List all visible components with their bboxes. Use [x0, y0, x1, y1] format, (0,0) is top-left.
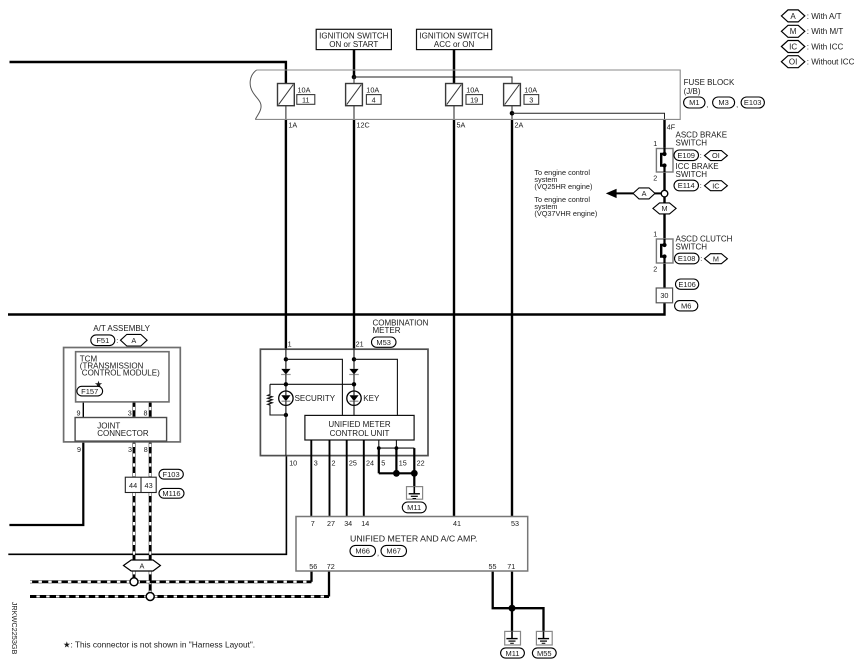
svg-text:3: 3: [128, 445, 132, 454]
node dot pin1 branch: [284, 357, 288, 361]
wire branch to ground M55: [512, 608, 544, 631]
svg-text:55: 55: [489, 562, 497, 571]
wire control unit out 24: [363, 440, 365, 517]
boxed number 4: [366, 95, 381, 105]
connector oval E108: [675, 253, 703, 264]
svg-text:E108: E108: [678, 254, 696, 263]
svg-text:M: M: [713, 254, 719, 263]
label COMBINATION METER: [373, 318, 429, 335]
ignition switch box ACC or ON: [417, 29, 492, 49]
svg-text:8: 8: [144, 445, 148, 454]
svg-text:15: 15: [399, 458, 407, 467]
svg-text:CONNECTOR: CONNECTOR: [97, 429, 149, 438]
legend hexagon OI: [781, 56, 854, 68]
svg-text:10A: 10A: [366, 86, 379, 95]
joint connector box: [75, 418, 167, 442]
label To engine control system (VQ37VHR engine): [534, 195, 597, 218]
wire 12C fuse 4 to combination meter pin 21: [353, 119, 355, 349]
svg-text:A: A: [139, 561, 144, 570]
svg-text:M67: M67: [386, 547, 401, 556]
combination meter box: [260, 349, 428, 455]
connector oval E106: [676, 279, 699, 289]
svg-text:SWITCH: SWITCH: [676, 170, 708, 179]
connector oval M116: [159, 488, 184, 498]
svg-text:1: 1: [653, 230, 657, 239]
svg-text:10A: 10A: [466, 86, 479, 95]
svg-text::: :: [700, 151, 702, 160]
boxed number 11: [297, 95, 315, 105]
svg-text:3: 3: [314, 458, 318, 467]
wire meter pin 10 down and left to page edge: [8, 456, 286, 555]
ground symbol M55 bottom: [536, 631, 552, 645]
svg-text::: :: [700, 181, 702, 190]
wire 2A fuse 3 to amp pin 53: [511, 119, 513, 516]
ASCD brake switch box: [656, 148, 673, 172]
svg-text:M: M: [790, 27, 797, 36]
svg-text:,: ,: [706, 100, 708, 109]
fuse 10A 4: [346, 84, 363, 106]
wire ignition ON/START down to fuse block: [353, 50, 356, 76]
svg-text:A: A: [642, 189, 647, 198]
legend hexagon M: [781, 25, 843, 37]
svg-text:24: 24: [366, 458, 374, 467]
svg-text:2: 2: [653, 265, 657, 274]
svg-text:: Without ICC: : Without ICC: [807, 58, 855, 67]
option hexagon M on wire: [653, 203, 676, 214]
wire ground jumper rail: [379, 447, 415, 449]
svg-text:SWITCH: SWITCH: [676, 138, 708, 147]
svg-text:SECURITY: SECURITY: [295, 394, 336, 403]
wire 1A fuse 11 to combination meter pin 1: [285, 119, 287, 349]
svg-text:3: 3: [128, 408, 132, 417]
legend hexagon IC: [781, 41, 843, 53]
connector oval M67: [381, 545, 407, 556]
svg-text:5: 5: [381, 458, 385, 467]
ignition switch box ON or START: [316, 29, 391, 49]
svg-text:F157: F157: [81, 387, 98, 396]
fuse 10A 3: [504, 84, 521, 106]
node dot resistor bottom: [284, 413, 288, 417]
connector oval M66: [350, 545, 379, 557]
svg-text:: With ICC: : With ICC: [807, 42, 844, 51]
svg-text:44: 44: [129, 481, 137, 490]
svg-text:1: 1: [288, 339, 292, 348]
svg-text:A: A: [131, 336, 136, 345]
svg-text:METER: METER: [373, 326, 401, 335]
svg-text::: :: [700, 254, 702, 263]
wire ground bus horizontal: [379, 472, 415, 474]
svg-text:IC: IC: [712, 181, 719, 190]
wire brake switch pin 2 down: [663, 172, 665, 190]
label FUSE BLOCK (J/B): [684, 78, 735, 96]
svg-text:43: 43: [145, 481, 153, 490]
node dot jumper 5: [377, 446, 381, 450]
svg-text:5A: 5A: [457, 121, 466, 130]
svg-text:21: 21: [356, 339, 364, 348]
svg-text:M1: M1: [689, 98, 699, 107]
wire M hexagon to clutch switch pin 1: [663, 214, 665, 240]
junction open circle comm line 1: [130, 578, 138, 586]
svg-text:(J/B): (J/B): [684, 87, 701, 96]
wire pin 15 down: [395, 448, 397, 473]
wire pin1 internal: [285, 349, 287, 369]
svg-text:SWITCH: SWITCH: [676, 243, 708, 252]
svg-text:M11: M11: [505, 649, 519, 658]
svg-text:KEY: KEY: [363, 394, 380, 403]
svg-text:OI: OI: [712, 151, 720, 160]
svg-text:72: 72: [327, 562, 335, 571]
svg-text:CONTROL UNIT: CONTROL UNIT: [330, 429, 390, 438]
option hexagon IC: [705, 181, 728, 191]
svg-text:M11: M11: [407, 503, 421, 512]
inline connector 44 43 box: [125, 477, 156, 492]
svg-text:14: 14: [361, 519, 369, 528]
svg-text:53: 53: [511, 519, 519, 528]
svg-text:M116: M116: [162, 489, 180, 498]
svg-text:: With M/T: : With M/T: [807, 27, 844, 36]
svg-text:71: 71: [507, 562, 515, 571]
wire amp pin 71 to ground M11: [511, 571, 513, 631]
wire thin from dot to fuse 4: [353, 77, 355, 84]
node dot ground bus 22: [411, 470, 418, 477]
wire comm line 1 shielded horizontal: [30, 580, 312, 583]
svg-text:2A: 2A: [515, 121, 524, 130]
wire clutch switch pin 2 to connector 30: [663, 263, 665, 288]
wire pin21 internal: [353, 349, 355, 369]
svg-text:1: 1: [653, 139, 657, 148]
node dot security rail: [284, 382, 288, 386]
wire jumper from ON feed to fuse 3: [354, 77, 512, 84]
connector oval E114: [674, 180, 702, 191]
junction open circle comm line 2: [146, 593, 154, 601]
svg-text:41: 41: [453, 519, 461, 528]
svg-text:CONTROL MODULE): CONTROL MODULE): [82, 369, 160, 378]
svg-text:22: 22: [417, 458, 425, 467]
wire 5A fuse 19 to amp pin 41: [453, 119, 455, 516]
svg-text:M: M: [661, 204, 667, 213]
svg-text:F51: F51: [96, 336, 109, 345]
svg-text:M3: M3: [718, 98, 728, 107]
svg-text:★: This connector is not shown: ★: This connector is not shown in "Harne…: [63, 639, 255, 649]
TCM box: [76, 352, 169, 402]
svg-text:F103: F103: [163, 470, 180, 479]
boxed number 3: [524, 95, 539, 105]
A/T assembly outer box: [64, 348, 181, 442]
connector oval M1: [684, 97, 705, 108]
svg-text:8: 8: [144, 408, 148, 417]
svg-text:9: 9: [77, 408, 81, 417]
svg-text:9: 9: [77, 445, 81, 454]
option hexagon A transmission: [121, 334, 148, 346]
wire TCM pin 8 shielded to joint connector: [149, 402, 152, 418]
wire control unit out 25: [346, 440, 348, 517]
node dot ground bus 15: [393, 470, 400, 477]
connector oval M55 bottom: [532, 648, 556, 658]
svg-text:M6: M6: [681, 302, 691, 311]
svg-text:IC: IC: [789, 42, 797, 51]
wire junction to M split: [663, 197, 665, 204]
wire control unit out 3: [310, 440, 312, 517]
indicator lamp SECURITY: [279, 391, 293, 405]
fuse block J/B outline: [255, 70, 680, 119]
node dot fuse 3 output branch: [510, 111, 515, 116]
connector oval F157: [77, 386, 103, 396]
wire amp pin 72 down to comm line 2: [328, 571, 330, 597]
wire connector 30 down and long run to left edge: [8, 303, 665, 315]
wire control unit out 2: [329, 440, 331, 517]
junction open circle brake switch output: [661, 190, 668, 197]
indicator lamp KEY: [347, 391, 361, 405]
option hexagon A with arrow: [633, 188, 655, 199]
connector oval M53: [372, 337, 397, 347]
wire fuse 19 output thin: [453, 106, 455, 120]
option hexagon OI: [705, 151, 728, 161]
svg-text:34: 34: [344, 519, 352, 528]
wire control unit out 15 stub: [395, 440, 397, 448]
connector oval M11 bottom: [501, 648, 525, 658]
wire battery feed top-left to fuse 11: [10, 62, 286, 84]
svg-text:25: 25: [349, 458, 357, 467]
svg-text:FUSE BLOCK: FUSE BLOCK: [684, 78, 735, 87]
option hexagon M clutch: [705, 254, 728, 264]
svg-text:10: 10: [289, 458, 297, 467]
wire control unit out 5 stub: [378, 440, 380, 448]
wire node rail linking both branches: [270, 383, 354, 385]
wire 4F to ASCD brake switch pin 1: [663, 119, 665, 148]
svg-text:10A: 10A: [298, 86, 311, 95]
wire joint connector pin 8 shielded down to AV comm line: [149, 442, 152, 597]
fuse 10A 19: [446, 84, 463, 106]
connector oval M11 meter ground: [402, 502, 426, 513]
svg-text:27: 27: [327, 519, 335, 528]
diode D2 key feed: [349, 369, 359, 375]
svg-text:E106: E106: [678, 280, 696, 289]
svg-text:ACC or ON: ACC or ON: [434, 40, 475, 49]
svg-text:(VQ37VHR engine): (VQ37VHR engine): [534, 209, 597, 218]
svg-text:: With A/T: : With A/T: [807, 12, 842, 21]
pass-through connector 30: [656, 288, 672, 303]
label ICC BRAKE SWITCH: [676, 162, 719, 179]
node dot pin21 branch: [352, 357, 356, 361]
svg-text:7: 7: [311, 519, 315, 528]
connector oval E109: [674, 150, 702, 161]
fuse 10A 11: [278, 84, 295, 106]
wire A hexagon to open circle: [655, 192, 662, 194]
wire fuse 11 output thin: [285, 106, 287, 120]
diode D1 security feed: [281, 369, 291, 375]
connector oval F51: [91, 335, 118, 346]
wire branch pin1 to control unit: [286, 359, 343, 415]
svg-text:JRKWC2253GB: JRKWC2253GB: [10, 602, 19, 655]
node dot jumper 15: [395, 446, 399, 450]
svg-text:10A: 10A: [524, 86, 537, 95]
connector oval E103: [741, 97, 764, 108]
connector oval F103: [159, 469, 183, 479]
wire arrow branch to engine control: [615, 192, 634, 194]
wire comm line 2 shielded horizontal: [30, 595, 329, 598]
legend hexagon A: [781, 10, 841, 22]
resistor parallel with security lamp: [268, 384, 286, 415]
svg-text:11: 11: [302, 95, 310, 104]
wire diode1 to node: [285, 374, 287, 391]
svg-text:4F: 4F: [667, 123, 676, 132]
svg-text:,: ,: [736, 100, 738, 109]
wire key lamp to control unit: [353, 405, 355, 415]
wire pin 5 down: [378, 448, 380, 473]
svg-text:19: 19: [470, 95, 478, 104]
wire joint connector pin 3 shielded down to AV comm line: [133, 442, 136, 582]
arrowhead to engine control system: [606, 189, 617, 198]
svg-text:30: 30: [660, 291, 668, 300]
ASCD clutch switch box: [656, 239, 673, 263]
svg-text:4: 4: [372, 95, 376, 104]
wire amp pin 55 to ground junction: [493, 571, 512, 608]
wire ignition ACC/ON down to fuse 19: [453, 50, 456, 84]
label ASCD CLUTCH SWITCH: [676, 235, 733, 252]
svg-text:E114: E114: [678, 181, 695, 190]
connector oval M6: [675, 301, 698, 311]
wire joint connector pin 9 down and left to page edge: [9, 442, 83, 525]
wire TCM pin 3 shielded to joint connector: [133, 402, 136, 418]
svg-text:,: ,: [377, 549, 379, 558]
ground symbol M11 bottom: [505, 631, 521, 645]
svg-text:A/T ASSEMBLY: A/T ASSEMBLY: [93, 324, 150, 333]
unified meter and A/C amp box: [296, 517, 528, 572]
node dot key rail: [352, 382, 356, 386]
label To engine control system (VQ25HR engine): [534, 168, 592, 191]
wire security lamp to pin 10: [285, 405, 287, 455]
ground symbol meter M11: [407, 487, 423, 500]
svg-text:2: 2: [332, 458, 336, 467]
wire TCM pin 9 to joint connector: [82, 402, 84, 418]
node dot ignition ON feed: [352, 75, 357, 80]
svg-text:UNIFIED METER AND A/C AMP.: UNIFIED METER AND A/C AMP.: [350, 535, 478, 544]
wire pin 22 down: [413, 448, 415, 487]
svg-text:E103: E103: [744, 98, 762, 107]
wire branch pin21 to control unit: [354, 359, 397, 415]
svg-text:M66: M66: [355, 547, 370, 556]
connector oval M3: [713, 97, 735, 108]
svg-text:E109: E109: [677, 151, 695, 160]
svg-text:56: 56: [309, 562, 317, 571]
svg-text:M55: M55: [537, 649, 552, 658]
svg-text:12C: 12C: [357, 121, 370, 130]
node dot ground junction: [509, 605, 516, 612]
svg-text:ON or START: ON or START: [329, 40, 378, 49]
svg-text:OI: OI: [789, 58, 797, 67]
boxed number 19: [466, 95, 483, 105]
svg-text::: :: [116, 336, 118, 345]
svg-text:2: 2: [653, 174, 657, 183]
svg-text:M53: M53: [376, 338, 391, 347]
wire amp pin 56 down to comm line 1: [310, 571, 312, 582]
wire fuse 3 output thin: [511, 106, 513, 120]
svg-text:(VQ25HR engine): (VQ25HR engine): [534, 182, 592, 191]
label ASCD BRAKE SWITCH: [676, 130, 728, 147]
option hexagon A comm lines: [124, 560, 161, 571]
svg-text:3: 3: [529, 95, 533, 104]
svg-text:1A: 1A: [288, 121, 297, 130]
wire diode2 to node: [353, 374, 355, 391]
svg-text:A: A: [790, 12, 796, 21]
unified meter control unit box: [305, 415, 414, 440]
wire fuse 4 output thin: [353, 106, 355, 120]
wire 4F branch inside fuse block: [512, 113, 665, 119]
